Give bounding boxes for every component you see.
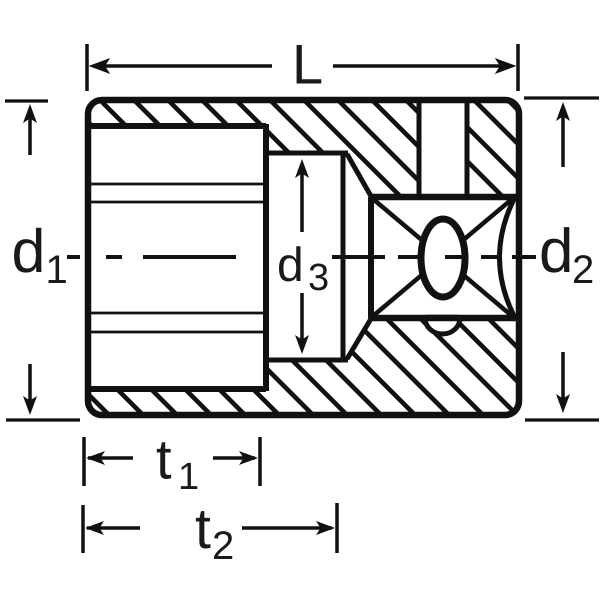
- t2 line right: [242, 526, 332, 530]
- d2 arrow up: [561, 113, 565, 167]
- hatch bottom wall: [0, 90, 600, 430]
- ball hole ellipse: [421, 219, 465, 297]
- ball detent: [425, 318, 460, 334]
- d2 arrow down: [561, 352, 565, 402]
- hex thin line 3: [89, 312, 265, 315]
- square hole diagonal B: [373, 199, 512, 316]
- L line left: [95, 64, 272, 68]
- square hole top edge: [371, 194, 519, 201]
- d3 hole right edge: [341, 153, 346, 360]
- d1 label: [14, 228, 41, 273]
- dimension d1: [5, 101, 80, 420]
- body outline: [88, 100, 519, 415]
- t1 arrow right: [239, 451, 258, 465]
- bore top line: [88, 123, 266, 129]
- t2 extension left: [81, 505, 85, 553]
- d1 arrow up: [28, 115, 32, 155]
- d3 arrow down: [300, 293, 304, 343]
- square hole left edge: [368, 197, 374, 318]
- d2 ref line bottom: [525, 418, 599, 421]
- t1 label: [157, 442, 171, 479]
- centerline: [67, 255, 536, 259]
- L arrow left: [90, 59, 109, 73]
- d3 hole bottom edge: [264, 358, 348, 363]
- d3 arrow up: [300, 170, 304, 232]
- hex thin line 1: [89, 183, 265, 186]
- square hole bottom edge: [371, 315, 519, 322]
- t1 extension right: [258, 437, 262, 486]
- taper top: [347, 154, 372, 198]
- t1 line left: [88, 456, 133, 460]
- taper bottom: [347, 317, 372, 359]
- L arrow right: [496, 59, 515, 73]
- back bore arc: [500, 199, 515, 316]
- dimension d3: [279, 159, 327, 354]
- t2 extension right: [335, 503, 339, 553]
- bore bottom line: [88, 386, 266, 392]
- t1 line right: [213, 456, 255, 460]
- dimension t2: [83, 503, 337, 559]
- L label: [297, 45, 322, 84]
- hex thin line 2: [89, 201, 265, 204]
- hatch top middle wall: [0, 90, 600, 430]
- chamfer vertical 2: [465, 100, 470, 197]
- d3 label: [279, 246, 301, 281]
- L extension left: [85, 44, 89, 91]
- bore right edge / d3 hole left edge: [263, 124, 269, 391]
- t2 line left: [87, 526, 140, 530]
- d2 ref line top: [524, 96, 599, 99]
- t1 arrow left: [86, 451, 105, 465]
- t2 arrow right: [316, 521, 335, 535]
- hatch top band over bore: [0, 90, 600, 430]
- hatch top right wall: [0, 90, 600, 430]
- t1 extension left: [82, 437, 86, 486]
- t2 arrow left: [85, 521, 104, 535]
- chamfer vertical 1: [417, 100, 422, 197]
- dimension t1: [84, 437, 260, 489]
- square hole diagonal A: [373, 199, 512, 316]
- d3 hole top edge: [264, 151, 348, 156]
- L line right: [333, 64, 510, 68]
- hex thin line 4: [89, 331, 265, 334]
- t2 label: [196, 511, 211, 548]
- d2 label: [542, 227, 570, 273]
- dimension d2: [524, 98, 599, 420]
- d1 arrow down: [28, 364, 32, 404]
- d1 ref line bottom: [6, 418, 80, 421]
- L extension right: [516, 44, 520, 91]
- dimension L: [87, 44, 518, 91]
- d1 ref line top: [5, 99, 48, 102]
- hatch bottom band under bore: [0, 90, 600, 430]
